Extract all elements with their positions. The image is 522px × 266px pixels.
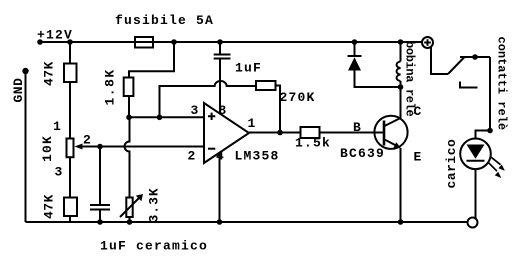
LED arrow 2: [488, 163, 497, 172]
resistor 47K (upper): [64, 64, 77, 83]
wire rail to diode: [354, 42, 356, 55]
wire LED to output terminal: [475, 169, 477, 218]
junction feedback tap: [157, 115, 163, 121]
junction pin4 / rail: [217, 219, 223, 225]
wire top rail +12V: [40, 41, 422, 43]
diode D1 cathode bar: [348, 55, 362, 57]
LED arrow 1: [490, 156, 501, 164]
terminal + sign: [424, 39, 431, 46]
svg-text:carico: carico: [444, 139, 459, 189]
wire GND vertical: [25, 71, 27, 222]
junction fuse out / 1.8K: [171, 39, 177, 45]
svg-text:270K: 270K: [280, 90, 316, 105]
svg-text:8: 8: [219, 103, 227, 118]
svg-text:fusibile 5A: fusibile 5A: [115, 13, 214, 28]
wire 1.8K to pin3 node: [128, 96, 130, 117]
svg-text:10K: 10K: [40, 135, 55, 162]
trimmer 3.3K body: [126, 198, 132, 218]
svg-text:contatti relè: contatti relè: [495, 37, 509, 131]
junction rail / 1uF: [217, 39, 223, 45]
junction feedback / output: [277, 130, 283, 136]
wire cap to op-amp pin8: [219, 59, 221, 114]
relay coil bobina: [397, 62, 401, 82]
wire 47K to pot: [69, 82, 71, 139]
wire emitter to rail: [400, 148, 402, 222]
svg-text:47K: 47K: [42, 194, 57, 219]
junction 1.8K / 3.3K / pin3: [126, 115, 132, 121]
wire coil to junction: [400, 81, 402, 87]
junction wiper / 1uF ceramic: [97, 144, 103, 150]
op-amp minus sign: [208, 148, 215, 150]
wire cap to rail: [99, 210, 101, 223]
resistor 1.8K: [124, 78, 134, 97]
capacitor 1uF plates: [214, 55, 231, 59]
wire 1.5k to base: [320, 132, 385, 134]
junction cap / rail: [97, 219, 103, 225]
svg-text:1uF ceramico: 1uF ceramico: [100, 239, 208, 254]
svg-text:+12V: +12V: [37, 28, 73, 43]
svg-text:1: 1: [248, 116, 256, 131]
trimmer arrow head: [136, 194, 143, 201]
pot wiper arrow: [75, 144, 83, 150]
wire terminal to switch pivot: [431, 47, 448, 74]
svg-text:2: 2: [188, 148, 196, 163]
wire trimmer column with hop over wiper wire: [125, 117, 130, 197]
terminal output circle: [468, 218, 478, 228]
wire switch common: [460, 56, 490, 58]
terminal + circle: [422, 37, 433, 48]
wire rail to coil: [400, 42, 402, 62]
wire down to cap 1uF ceramico: [99, 147, 101, 205]
LED carico circle: [460, 139, 491, 170]
ground GND terminal dot: [22, 68, 28, 74]
svg-text:3: 3: [55, 164, 63, 179]
wire rail to cap 1uF: [219, 42, 221, 54]
LED arrow 1 head: [498, 165, 505, 171]
wire 47K lower to rail: [69, 216, 71, 222]
svg-text:2: 2: [83, 133, 91, 148]
svg-text:B: B: [353, 120, 361, 135]
trimmer arrow: [120, 198, 139, 217]
fuse F1 body: [135, 37, 153, 48]
wire trimmer to rail: [129, 217, 131, 222]
diode D1 triangle: [348, 57, 361, 70]
transistor collector diagonal: [385, 118, 401, 126]
switch fixed contact L: [460, 82, 478, 88]
junction rail / diode: [352, 39, 358, 45]
potentiometer 10K body: [67, 139, 74, 158]
wire collector up: [400, 87, 402, 118]
wire pin3 line: [129, 116, 204, 118]
wire rail to R 1.8K: [129, 42, 174, 78]
svg-text:bobina relè: bobina relè: [403, 41, 417, 117]
wire op-amp output: [249, 132, 301, 134]
wire contact down right side: [489, 57, 491, 131]
transistor base bar: [383, 121, 386, 146]
junction switch / contact wire: [472, 54, 478, 60]
wire pin4 to rail: [219, 153, 221, 222]
wire rail to R 47K top: [69, 42, 71, 64]
resistor 47K (lower): [64, 198, 77, 217]
wire bottom rail: [26, 221, 468, 223]
junction emitter / rail: [398, 219, 404, 225]
op-amp plus sign: [208, 113, 215, 120]
svg-text:E: E: [414, 150, 422, 165]
svg-text:1.8K: 1.8K: [103, 68, 118, 105]
emitter arrow head: [394, 142, 402, 148]
svg-text:3.3K: 3.3K: [147, 187, 162, 222]
junction coil / collector: [398, 84, 404, 90]
wire pot to R 47K bottom: [69, 157, 71, 197]
LED triangle: [467, 145, 485, 159]
LED arrow 2 head: [495, 172, 502, 178]
transistor Q1 BC639 circle: [374, 116, 407, 149]
junction trimmer / rail: [127, 219, 133, 225]
svg-text:BC639: BC639: [340, 146, 385, 161]
switch blade: [448, 58, 464, 75]
wire through fuse: [136, 41, 152, 43]
svg-text:1.5k: 1.5k: [295, 135, 331, 150]
LED cathode bar: [467, 160, 485, 162]
wire feedback up and to 270K with hop: [160, 81, 257, 117]
svg-text:1: 1: [53, 119, 61, 134]
resistor 1.5k: [301, 127, 320, 138]
wire to LED top: [476, 131, 491, 139]
svg-text:LM358: LM358: [235, 149, 280, 164]
junction rail / relay coil: [398, 39, 404, 45]
junction contact / LED branch: [487, 128, 493, 134]
wire wiper to op-amp pin2: [80, 146, 204, 148]
resistor 270K: [256, 81, 276, 90]
op-amp U1 LM358 triangle: [204, 103, 249, 163]
capacitor 1uF ceramico plates: [90, 205, 110, 210]
wire 270K to output node: [276, 86, 281, 133]
svg-text:47K: 47K: [42, 61, 57, 86]
svg-text:3: 3: [191, 103, 199, 118]
wire diode to coil bottom: [355, 71, 401, 88]
node +12V terminal dot: [37, 39, 43, 45]
junction top of 47K: [67, 39, 73, 45]
svg-text:GND: GND: [11, 78, 26, 103]
transistor emitter diagonal: [385, 140, 400, 148]
svg-text:1uF: 1uF: [235, 61, 262, 76]
